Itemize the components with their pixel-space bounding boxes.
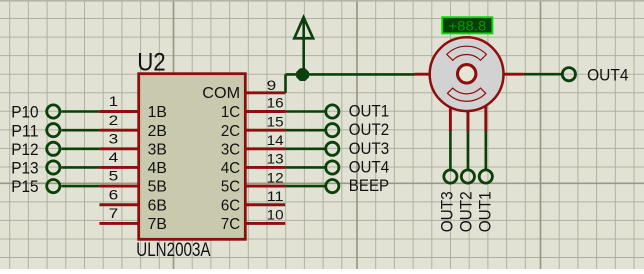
svg-text:15: 15	[267, 113, 284, 129]
svg-text:9: 9	[267, 77, 277, 93]
svg-text:6C: 6C	[221, 197, 240, 214]
svg-text:7: 7	[109, 205, 119, 221]
svg-text:3: 3	[109, 130, 119, 146]
svg-text:+88.8: +88.8	[448, 18, 486, 34]
svg-text:U2: U2	[137, 49, 166, 77]
svg-text:BEEP: BEEP	[349, 176, 389, 195]
svg-text:ULN2003A: ULN2003A	[136, 240, 210, 261]
svg-text:4: 4	[109, 149, 119, 165]
svg-text:OUT3: OUT3	[349, 139, 389, 158]
svg-text:P11: P11	[11, 121, 38, 140]
svg-text:7C: 7C	[221, 216, 240, 233]
svg-text:5B: 5B	[148, 179, 167, 196]
svg-text:P13: P13	[11, 159, 38, 178]
svg-text:16: 16	[267, 95, 284, 111]
svg-text:10: 10	[267, 207, 284, 223]
svg-text:OUT1: OUT1	[349, 102, 389, 121]
svg-text:OUT3: OUT3	[438, 191, 457, 232]
svg-text:3B: 3B	[148, 141, 167, 158]
svg-text:6: 6	[109, 186, 119, 202]
svg-text:OUT2: OUT2	[457, 191, 476, 232]
svg-text:14: 14	[267, 132, 284, 148]
svg-text:P10: P10	[11, 103, 38, 122]
svg-text:13: 13	[267, 151, 284, 167]
svg-text:2B: 2B	[148, 123, 167, 140]
svg-text:1C: 1C	[221, 104, 240, 121]
svg-text:OUT2: OUT2	[349, 120, 389, 139]
svg-text:4B: 4B	[148, 160, 167, 177]
svg-text:OUT4: OUT4	[349, 157, 389, 176]
svg-text:11: 11	[267, 188, 284, 204]
svg-text:OUT4: OUT4	[587, 65, 628, 84]
svg-text:4C: 4C	[221, 160, 240, 177]
svg-text:7B: 7B	[148, 216, 167, 233]
svg-text:12: 12	[267, 169, 284, 185]
svg-text:1: 1	[109, 93, 119, 109]
svg-text:1B: 1B	[148, 104, 167, 121]
svg-text:P15: P15	[11, 177, 38, 196]
svg-text:2C: 2C	[221, 123, 240, 140]
svg-text:6B: 6B	[148, 197, 167, 214]
svg-text:P12: P12	[11, 140, 38, 159]
svg-text:OUT1: OUT1	[476, 191, 495, 232]
svg-text:COM: COM	[202, 85, 240, 102]
svg-text:5C: 5C	[221, 179, 240, 196]
svg-text:2: 2	[109, 112, 119, 128]
svg-text:5: 5	[109, 168, 119, 184]
svg-text:3C: 3C	[221, 141, 240, 158]
